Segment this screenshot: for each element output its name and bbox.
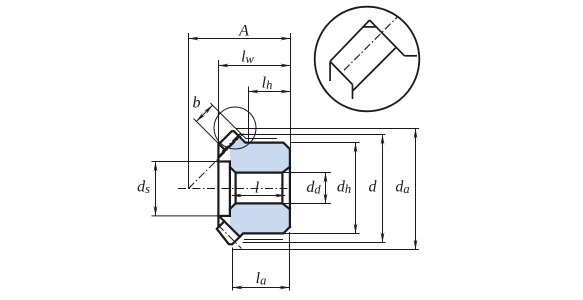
svg-text:A: A <box>238 23 249 40</box>
svg-text:dd: dd <box>306 179 321 197</box>
svg-text:b: b <box>193 95 201 112</box>
svg-text:la: la <box>256 270 267 288</box>
svg-text:dh: dh <box>337 179 351 197</box>
svg-text:lw: lw <box>241 49 254 67</box>
svg-text:ds: ds <box>137 179 150 197</box>
svg-text:l: l <box>255 180 260 197</box>
svg-text:lh: lh <box>262 75 273 93</box>
svg-text:d: d <box>369 179 378 196</box>
svg-text:da: da <box>395 179 409 197</box>
